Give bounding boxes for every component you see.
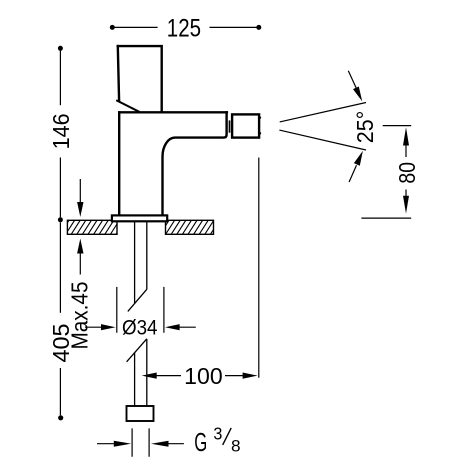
svg-text:Ø34: Ø34 [122,315,158,339]
svg-text:125: 125 [167,14,201,42]
svg-text:G: G [194,429,207,457]
svg-text:25°: 25° [352,111,378,144]
svg-text:80: 80 [394,162,420,184]
svg-text:146: 146 [48,113,74,149]
svg-text:100: 100 [184,363,223,389]
svg-text:3: 3 [213,424,222,444]
svg-text:Max.45: Max.45 [67,282,93,350]
svg-text:8: 8 [231,438,241,456]
